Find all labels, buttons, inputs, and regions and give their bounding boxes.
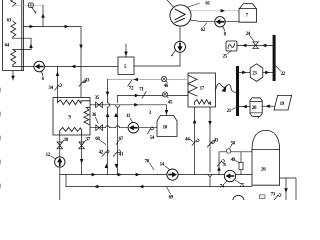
- svg-text:14: 14: [160, 163, 165, 168]
- pump 16 (cut): [233, 195, 244, 206]
- valve 24: [253, 42, 259, 49]
- svg-text:73: 73: [271, 192, 276, 197]
- svg-text:45: 45: [168, 100, 173, 105]
- valve 45: [162, 92, 168, 98]
- valve 46: [161, 76, 167, 82]
- column 1 shell: [3, 0, 24, 71]
- svg-text:68: 68: [95, 137, 100, 142]
- riser to turbine: [179, 52, 181, 66]
- svg-text:54: 54: [150, 136, 155, 141]
- svg-text:72: 72: [129, 86, 134, 91]
- wire turbine to box7 lower: [190, 20, 239, 22]
- svg-text:71: 71: [139, 88, 144, 93]
- pump 6: [34, 61, 45, 72]
- busbar 22: [273, 35, 276, 81]
- turbine top-left stub: [166, 0, 173, 7]
- svg-text:61: 61: [205, 1, 210, 6]
- valve 72: [128, 80, 132, 86]
- svg-text:44: 44: [185, 138, 190, 143]
- busbar 21: [236, 66, 239, 116]
- svg-text:46: 46: [164, 84, 169, 89]
- wire box5 to riser: [134, 65, 180, 67]
- wire cell23 to bar22: [263, 71, 273, 73]
- svg-text:69: 69: [169, 196, 174, 200]
- wire pump6 to box5: [45, 65, 119, 67]
- flue gas wavy wire: [216, 84, 237, 93]
- column inner wall: [21, 0, 23, 71]
- valve 42: [102, 150, 109, 156]
- valve 49 branch: [240, 152, 242, 175]
- main return line: [60, 174, 252, 176]
- svg-text:8: 8: [224, 33, 227, 38]
- wire bar21 to cell 23: [239, 71, 250, 73]
- wire coil-top to vent line: [14, 4, 43, 6]
- svg-text:43: 43: [214, 138, 219, 143]
- valve 44: [192, 139, 199, 145]
- svg-text:76: 76: [223, 162, 227, 167]
- pump 13: [175, 41, 186, 52]
- cell 20: [250, 98, 262, 117]
- tank outlet wires: [280, 178, 296, 200]
- svg-text:33: 33: [85, 78, 90, 83]
- svg-text:12: 12: [46, 153, 51, 158]
- svg-text:41: 41: [119, 153, 124, 158]
- wire V1 riser: [107, 80, 109, 175]
- tank 10: [157, 116, 177, 137]
- svg-text:63: 63: [7, 18, 12, 23]
- svg-text:67: 67: [119, 137, 124, 142]
- wire V2 riser: [117, 96, 119, 175]
- valve 43: [207, 141, 214, 147]
- lower return line: [66, 186, 252, 188]
- wire cell20 to bar21: [239, 106, 250, 108]
- valve 41: [113, 150, 120, 156]
- coil 9 right: [84, 107, 90, 124]
- wire line D (pump 11 line): [90, 127, 157, 129]
- wire pump12 down: [59, 167, 61, 200]
- wire 17-coil outlet: [209, 107, 211, 187]
- column bottom outlet: [12, 71, 14, 81]
- valve 35: [96, 102, 103, 108]
- valve 33: [79, 80, 86, 86]
- valve 73: [274, 194, 281, 200]
- wire panel19 to cell20: [262, 105, 274, 107]
- wire pump13 to turbine: [179, 26, 181, 41]
- valve 54: [148, 127, 154, 134]
- panel 19: [274, 95, 292, 110]
- valve 38: [59, 135, 61, 157]
- tank feed riser: [219, 152, 252, 175]
- instrument tag: [29, 3, 34, 7]
- wire turbine to box7 upper: [191, 10, 239, 12]
- box 5 feed stub: [125, 44, 127, 57]
- svg-text:62: 62: [201, 28, 206, 33]
- valve 50: [226, 149, 230, 153]
- pump 8: [215, 17, 225, 27]
- svg-text:64: 64: [5, 43, 10, 48]
- svg-text:74: 74: [220, 185, 225, 190]
- turbine 2: [170, 5, 191, 26]
- valve 76: [217, 160, 224, 166]
- wire line C (to tank 10): [90, 105, 167, 116]
- svg-text:34: 34: [48, 86, 53, 91]
- valve 34 line: [57, 66, 59, 97]
- svg-text:6: 6: [42, 77, 45, 82]
- svg-text:70: 70: [145, 159, 150, 164]
- valve 71: [142, 92, 146, 99]
- pump 11: [128, 122, 139, 133]
- wire link risers: [65, 175, 67, 187]
- valve 36: [96, 125, 103, 131]
- wire line A (to 17 upper): [108, 79, 189, 81]
- svg-text:36: 36: [92, 113, 97, 118]
- wire coil63 to coil64 loop: [13, 38, 31, 49]
- pump 15: [224, 170, 235, 181]
- box 5: [118, 57, 134, 75]
- heater 17: [188, 73, 216, 107]
- coil 63: [11, 21, 16, 38]
- tank (cut): [259, 195, 265, 199]
- boiler box 7: [239, 4, 257, 23]
- pump 12: [55, 157, 65, 167]
- svg-text:75: 75: [240, 183, 245, 188]
- wire busbar to generator: [237, 44, 272, 46]
- tank 26: [252, 130, 280, 185]
- valve 34: [55, 84, 62, 90]
- coil top (cut at image top): [11, 0, 16, 7]
- cell 23: [250, 64, 263, 82]
- valve 37: [81, 135, 83, 175]
- wire column top draw y26.5: [24, 27, 81, 98]
- coil in 17: [195, 100, 211, 105]
- coil 9 bottom: [60, 127, 82, 135]
- wire vent vertical: [42, 5, 44, 26]
- svg-text:22: 22: [281, 72, 286, 77]
- svg-text:25: 25: [223, 55, 228, 60]
- pump 14: [167, 169, 178, 180]
- svg-text:3: 3: [149, 111, 152, 116]
- svg-text:35: 35: [95, 96, 100, 101]
- generator box 25: [226, 41, 237, 51]
- left edge marks: [0, 88, 2, 188]
- wire coil64 to pump 6: [13, 65, 34, 67]
- svg-text:49: 49: [231, 158, 236, 163]
- evaporator 9: [53, 98, 90, 136]
- coil 64: [11, 50, 16, 67]
- wire line B (to 17 lower): [118, 95, 188, 97]
- svg-text:38: 38: [63, 138, 68, 143]
- coil 9 top: [58, 98, 91, 105]
- wire 17-coil inlet: [194, 107, 196, 175]
- svg-text:21: 21: [227, 109, 232, 114]
